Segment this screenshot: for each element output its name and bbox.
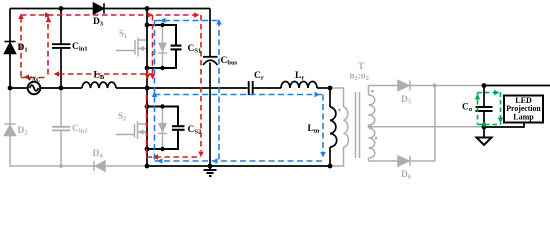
green loop bottom xyxy=(478,124,501,126)
transformer secondary winding lower xyxy=(369,128,375,161)
node Cin1 / ac xyxy=(59,86,64,91)
diode D6 xyxy=(398,156,410,166)
red loop A right xyxy=(47,15,49,78)
node body diode S2 bottom xyxy=(160,147,164,151)
node switch leg / bottom rail xyxy=(145,164,150,169)
blue loop resonant top xyxy=(155,94,324,96)
capacitor Co xyxy=(476,107,493,111)
body diode S2 xyxy=(158,107,167,150)
node CS1 bottom xyxy=(145,66,150,71)
green loop left xyxy=(477,93,479,125)
transformer core xyxy=(356,92,360,158)
blue loop resonant right xyxy=(322,95,324,154)
red loop A bottom xyxy=(21,77,48,79)
wire switch leg vertical xyxy=(146,9,148,167)
blue arrowheads xyxy=(152,18,326,164)
transformer secondary winding upper xyxy=(369,86,375,129)
node left rail / ac xyxy=(8,86,13,91)
LED projection lamp box xyxy=(504,96,543,123)
diode D4 xyxy=(94,161,105,171)
wire center tap return xyxy=(369,126,483,128)
node rectifier output xyxy=(433,84,437,88)
mosfet S1 xyxy=(116,26,147,57)
polarity dot secondary upper xyxy=(371,90,374,93)
wire mid Cr to Lr xyxy=(254,87,282,89)
node Co bottom xyxy=(482,125,487,130)
capacitor Cbus (polarized) xyxy=(203,57,218,65)
transformer T primary winding xyxy=(344,107,349,147)
red loop A left xyxy=(20,17,22,78)
wire secondary bottom xyxy=(369,160,436,162)
blue loop top xyxy=(155,20,220,22)
svg-text:Lamp: Lamp xyxy=(513,113,534,122)
diode D1 xyxy=(5,42,16,54)
node top rail / switch leg xyxy=(145,6,150,11)
wire output top xyxy=(484,85,550,87)
wire rectifier join vertical xyxy=(434,86,436,162)
node CS2 bottom xyxy=(145,147,150,152)
wire mid after LB xyxy=(116,87,248,89)
node top rail / Cin1 xyxy=(59,6,64,11)
blue loop left xyxy=(154,21,156,162)
node Co top xyxy=(482,83,487,88)
inductor Lm xyxy=(330,107,337,147)
red loop top xyxy=(21,14,201,16)
ground output (triangle) xyxy=(477,138,492,146)
diode D3 xyxy=(94,3,105,14)
capacitor CS2 with bracket xyxy=(147,107,185,150)
mosfet S2 xyxy=(116,110,147,140)
green loop right xyxy=(500,93,502,125)
inductor LB xyxy=(82,82,116,88)
red loop C left xyxy=(146,95,148,154)
wire output bottom xyxy=(484,123,524,128)
node body diode S2 top xyxy=(160,104,164,108)
inductor Lr xyxy=(281,82,317,89)
polarity dot primary xyxy=(338,109,341,112)
capacitor Cr xyxy=(249,81,253,95)
polarity dot secondary lower xyxy=(375,137,378,140)
node Lm top xyxy=(328,86,333,91)
wire ac row xyxy=(10,87,28,89)
wire bus leg upper xyxy=(209,9,211,57)
wire secondary top xyxy=(369,85,484,87)
diode D2 xyxy=(5,124,16,136)
red arrow stub xyxy=(147,69,149,74)
red loop C right xyxy=(200,15,202,151)
green arrowheads xyxy=(475,90,504,128)
blue loop Cbus right xyxy=(218,21,220,162)
node ground xyxy=(208,164,213,169)
wire Co leg xyxy=(483,86,485,107)
node CS1 top xyxy=(145,23,150,28)
wire left rail lower (gray) xyxy=(10,88,147,166)
node Lm bottom xyxy=(328,164,333,169)
blue loop bottom xyxy=(155,160,324,162)
red arrowheads xyxy=(18,12,204,160)
junction small gray dot Cin2/bottom xyxy=(59,164,63,168)
wire top rail xyxy=(10,8,210,10)
capacitor CS1 with bracket xyxy=(147,25,182,68)
wire Lm leads xyxy=(329,88,331,107)
red loop B bottom xyxy=(59,73,153,75)
body diode S1 xyxy=(158,25,167,68)
source vAC xyxy=(28,82,41,95)
node body diode S1 bottom xyxy=(160,66,164,70)
node CS2 top xyxy=(145,104,150,109)
node switch mid xyxy=(145,86,150,91)
capacitor Cin2 xyxy=(52,127,70,131)
wire bus leg lower xyxy=(209,63,211,167)
wire Cin2 leg xyxy=(60,88,62,126)
wire bottom rail xyxy=(147,165,330,167)
ground main xyxy=(204,166,217,176)
diode D5 xyxy=(398,81,410,91)
node center tap xyxy=(368,125,372,129)
node body diode S1 top xyxy=(160,23,164,27)
wire primary leads xyxy=(330,88,344,107)
wire left rail upper xyxy=(9,9,11,89)
green loop top xyxy=(478,92,501,94)
capacitor Cin1 xyxy=(52,9,71,89)
red loop B right xyxy=(152,15,154,74)
red loop C bottom xyxy=(147,156,202,158)
wire Lr to Lm node xyxy=(317,87,330,89)
